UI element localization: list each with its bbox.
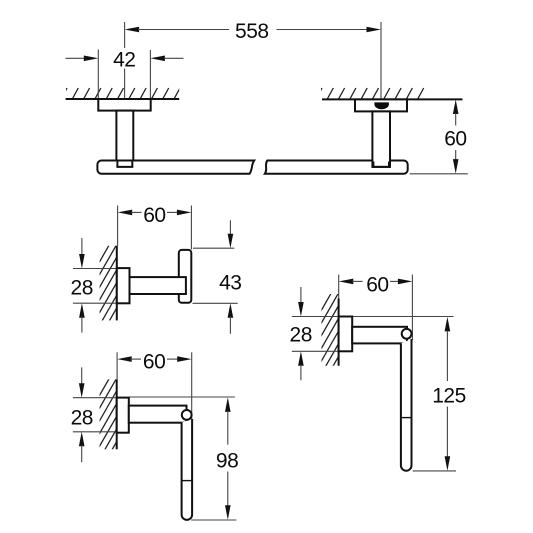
- dimension 60 (hook): [118, 204, 192, 250]
- dimension 98: [191, 397, 238, 520]
- paper holder plate (98): [117, 398, 129, 433]
- wall line top-right: [322, 98, 463, 100]
- dimension 60 (top right): [410, 100, 468, 174]
- svg-text:98: 98: [216, 449, 238, 472]
- svg-text:60: 60: [143, 204, 165, 227]
- hook arm: [130, 277, 186, 294]
- wall line bottom-left: [116, 379, 118, 449]
- wall hatch top-left: [55, 88, 191, 110]
- svg-text:125: 125: [432, 384, 466, 407]
- hanging bar (125): [401, 339, 412, 471]
- dimension 125: [413, 317, 466, 471]
- svg-text:28: 28: [290, 324, 312, 347]
- wall hatch hook: [96, 226, 120, 357]
- svg-text:28: 28: [71, 277, 93, 300]
- dimension 60 (bottom right): [339, 273, 413, 340]
- dimension 28 (bottom left): [71, 367, 117, 462]
- dimension 43 (hook): [193, 220, 242, 333]
- svg-text:43: 43: [219, 271, 241, 294]
- dimension 98 ref top: [129, 396, 235, 398]
- dimension 42: [66, 48, 184, 99]
- wall line hook: [116, 246, 118, 321]
- right wall bracket: [355, 99, 407, 111]
- paper holder arm (125): [352, 327, 407, 344]
- wall hatch top-right: [310, 88, 435, 110]
- right post tip inside bar: [372, 162, 374, 167]
- svg-text:60: 60: [366, 273, 388, 296]
- paper holder arm (98): [129, 406, 187, 423]
- towel bar left piece with break: [97, 161, 254, 174]
- wall line bottom-right: [338, 299, 340, 366]
- hook end plate: [179, 250, 192, 303]
- dimension 60 (bottom left): [117, 351, 192, 421]
- svg-text:558: 558: [235, 20, 269, 43]
- wall hatch bottom-left: [96, 360, 120, 478]
- dimension 125 ref top: [352, 316, 453, 318]
- hook mounting plate: [117, 268, 130, 303]
- svg-text:42: 42: [113, 48, 135, 71]
- svg-text:28: 28: [71, 407, 93, 430]
- wall hatch bottom-right: [318, 274, 342, 392]
- left post tip inside bar: [116, 162, 118, 167]
- dimension 28 (bottom right): [290, 287, 339, 380]
- sleeve joint mark (125): [401, 417, 412, 419]
- towel bar right piece with break: [265, 161, 408, 174]
- dimension 28 (hook): [71, 238, 117, 333]
- hanging bar (98): [182, 419, 193, 520]
- svg-text:60: 60: [444, 127, 466, 150]
- pivot circle (125): [402, 329, 412, 339]
- screw head on right bracket: [374, 102, 389, 109]
- pivot circle (98): [182, 410, 192, 420]
- svg-text:60: 60: [143, 351, 165, 374]
- sleeve joint mark (98): [182, 480, 193, 482]
- wall line top-left: [66, 98, 180, 100]
- left post: [116, 111, 133, 167]
- right post: [372, 111, 390, 166]
- paper holder plate (125): [339, 317, 353, 352]
- dimension 558: [125, 20, 381, 102]
- left wall bracket: [98, 99, 150, 111]
